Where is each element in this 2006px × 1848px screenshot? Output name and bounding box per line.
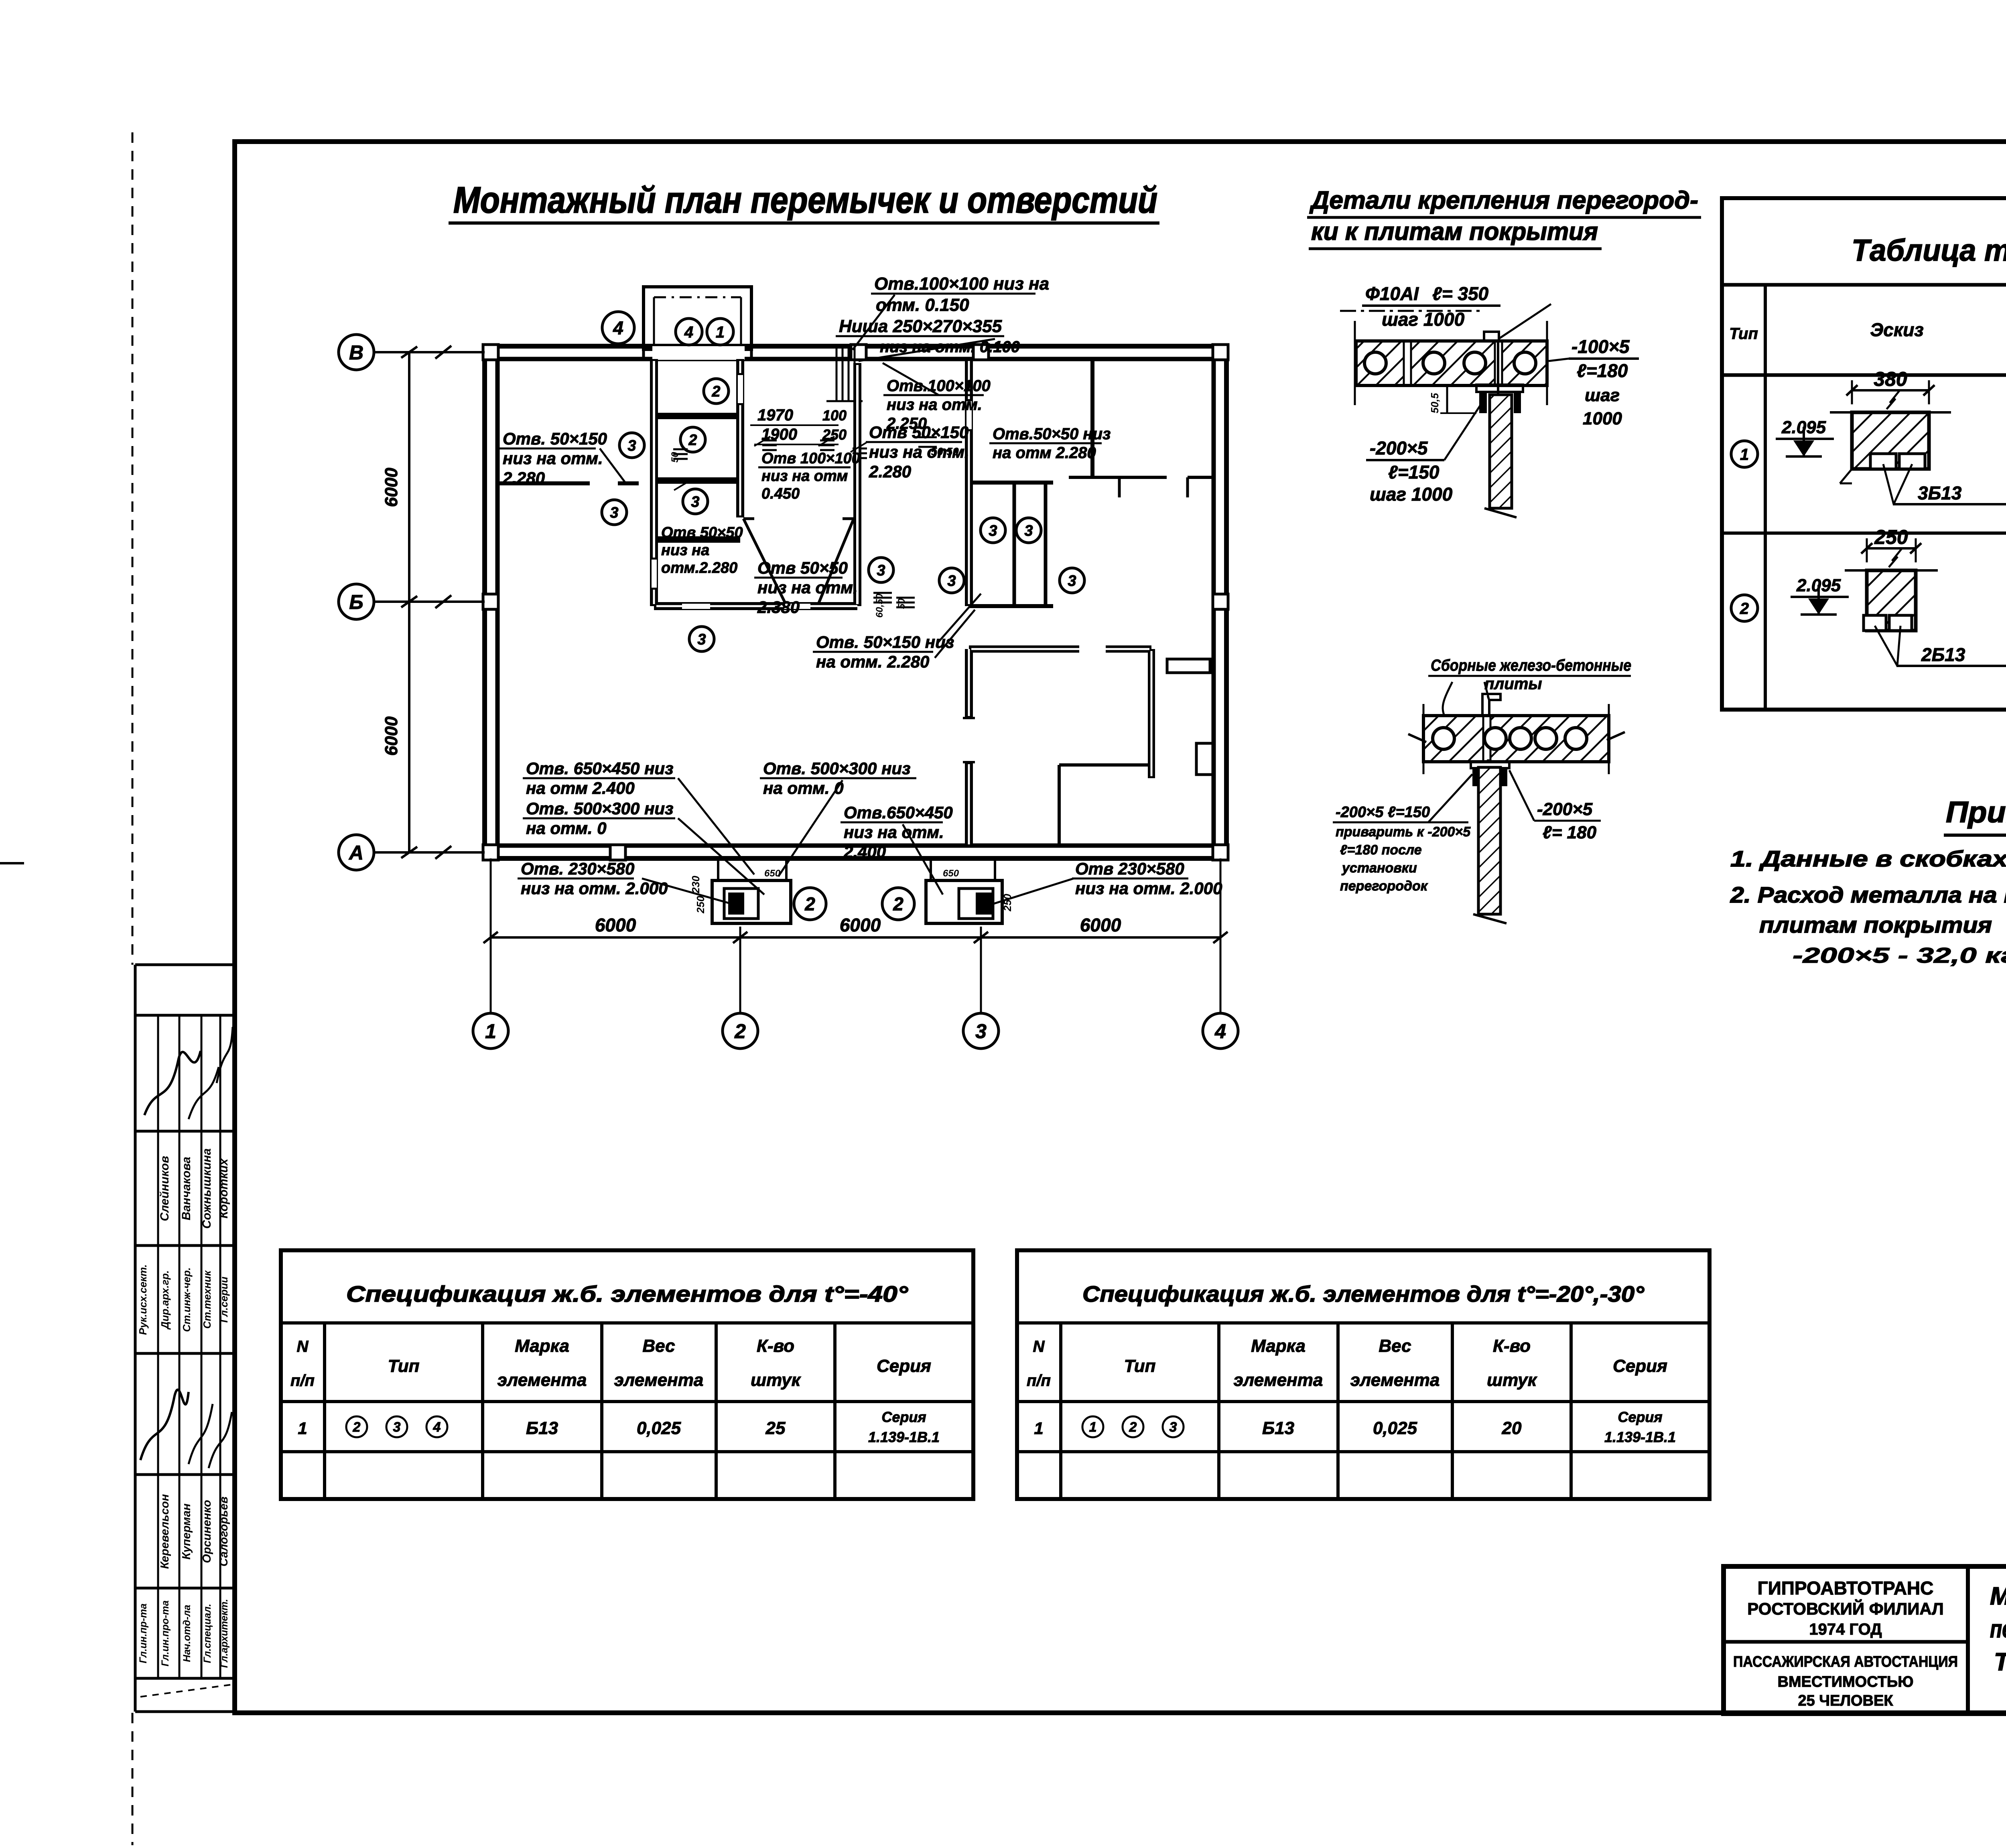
svg-text:Марка: Марка <box>515 1336 569 1356</box>
svg-text:650: 650 <box>943 868 959 879</box>
svg-text:низ на отм.: низ на отм. <box>503 449 603 468</box>
svg-text:-200×5: -200×5 <box>1370 438 1428 458</box>
svg-text:Отв.50×50 низ: Отв.50×50 низ <box>993 425 1111 443</box>
svg-text:6000: 6000 <box>382 468 401 507</box>
svg-text:3: 3 <box>697 631 706 648</box>
svg-text:6000: 6000 <box>1080 915 1121 935</box>
svg-text:Ф10АІ: Ф10АІ <box>1365 283 1419 304</box>
svg-text:п/п: п/п <box>1027 1372 1051 1390</box>
svg-text:3Б13: 3Б13 <box>1918 483 1962 503</box>
svg-text:низ на отм.: низ на отм. <box>844 823 944 842</box>
svg-text:штук: штук <box>751 1370 802 1390</box>
svg-text:1: 1 <box>485 1020 496 1043</box>
svg-text:К-во: К-во <box>1493 1336 1531 1356</box>
svg-text:50,50: 50,50 <box>931 445 959 458</box>
svg-text:2: 2 <box>688 432 697 449</box>
svg-text:Б13: Б13 <box>1262 1418 1294 1438</box>
svg-text:Отв.650×450: Отв.650×450 <box>844 803 953 822</box>
svg-text:Ст.инж-чер.: Ст.инж-чер. <box>181 1268 193 1332</box>
svg-text:Отв. 50×150: Отв. 50×150 <box>503 429 607 448</box>
svg-text:4: 4 <box>613 318 623 339</box>
svg-text:ГИПРОАВТОТРАНС: ГИПРОАВТОТРАНС <box>1758 1578 1934 1598</box>
svg-text:3: 3 <box>975 1020 987 1043</box>
svg-text:Сборные железо-бетонные: Сборные железо-бетонные <box>1431 657 1631 674</box>
svg-text:3: 3 <box>1024 523 1033 540</box>
svg-text:низ на отм. 2.000: низ на отм. 2.000 <box>1075 879 1222 898</box>
svg-text:перегородок: перегородок <box>1340 878 1428 894</box>
svg-text:230: 230 <box>690 876 702 894</box>
svg-text:ПАССАЖИРСКАЯ АВТОСТАНЦИЯ: ПАССАЖИРСКАЯ АВТОСТАНЦИЯ <box>1733 1653 1958 1670</box>
svg-text:25 ЧЕЛОВЕК: 25 ЧЕЛОВЕК <box>1798 1692 1893 1709</box>
svg-text:2: 2 <box>893 894 904 915</box>
svg-text:-200×5 - 32,0 кг: -200×5 - 32,0 кг <box>1793 943 2006 968</box>
svg-text:ℓ=180 после: ℓ=180 после <box>1340 842 1422 858</box>
svg-text:N: N <box>1033 1338 1045 1355</box>
svg-text:Марка: Марка <box>1251 1336 1306 1356</box>
svg-text:2: 2 <box>711 383 720 400</box>
svg-text:отм.2.280: отм.2.280 <box>661 560 737 576</box>
svg-text:В: В <box>349 341 363 364</box>
svg-text:Примечания:: Примечания: <box>1946 795 2006 829</box>
svg-text:-200×5 ℓ=150: -200×5 ℓ=150 <box>1336 804 1430 821</box>
svg-text:ℓ=150: ℓ=150 <box>1388 462 1440 483</box>
svg-text:2: 2 <box>1129 1420 1137 1435</box>
svg-text:50: 50 <box>896 598 907 609</box>
svg-text:20: 20 <box>1502 1418 1522 1438</box>
svg-text:Спецификация ж.б. элементов дл: Спецификация ж.б. элементов для t°=-20°,… <box>1082 1281 1645 1306</box>
svg-text:низ на отм.: низ на отм. <box>887 396 982 414</box>
svg-text:2.400: 2.400 <box>843 842 886 861</box>
svg-text:Рук.исх.сект.: Рук.исх.сект. <box>137 1264 149 1335</box>
svg-text:1: 1 <box>1034 1419 1043 1438</box>
svg-text:2. Расход металла на крепление: 2. Расход металла на крепление перегород… <box>1730 882 2006 907</box>
svg-text:перемычек и отверстий.: перемычек и отверстий. <box>1990 1615 2006 1643</box>
svg-text:1000: 1000 <box>1583 409 1622 428</box>
svg-text:элемента: элемента <box>614 1370 704 1390</box>
svg-text:Дир.арх.гр.: Дир.арх.гр. <box>159 1270 171 1330</box>
svg-text:-200×5: -200×5 <box>1537 799 1593 819</box>
svg-text:ℓ= 350: ℓ= 350 <box>1432 283 1489 304</box>
svg-text:Серия: Серия <box>881 1409 926 1425</box>
svg-text:1: 1 <box>716 323 725 341</box>
svg-text:штук: штук <box>1487 1370 1538 1390</box>
svg-text:Тип: Тип <box>1729 325 1758 343</box>
svg-text:250: 250 <box>1874 526 1908 548</box>
svg-text:250: 250 <box>694 896 707 914</box>
svg-text:шаг 1000: шаг 1000 <box>1382 309 1465 330</box>
svg-text:Таблица типов: Таблица типов <box>1994 1648 2006 1676</box>
svg-text:низ на: низ на <box>661 542 709 559</box>
svg-text:ки к плитам покрытия: ки к плитам покрытия <box>1311 218 1598 245</box>
svg-text:Эскиз: Эскиз <box>1870 319 1924 340</box>
svg-text:380: 380 <box>1874 368 1907 390</box>
svg-text:50: 50 <box>670 452 680 463</box>
svg-text:Ванчакова: Ванчакова <box>180 1157 193 1221</box>
svg-text:элемента: элемента <box>1350 1370 1440 1390</box>
svg-text:Отв 100×100: Отв 100×100 <box>761 450 860 467</box>
svg-text:4: 4 <box>433 1420 441 1435</box>
svg-text:6000: 6000 <box>382 716 401 756</box>
svg-text:низ на отм.: низ на отм. <box>757 578 858 597</box>
svg-text:на отм. 2.280: на отм. 2.280 <box>816 652 929 671</box>
svg-text:на отм 2.400: на отм 2.400 <box>526 779 635 797</box>
svg-text:Салогорьев: Салогорьев <box>217 1497 230 1567</box>
svg-text:1970: 1970 <box>757 406 793 424</box>
svg-text:3: 3 <box>691 494 699 511</box>
svg-text:1900: 1900 <box>761 426 797 443</box>
svg-text:3: 3 <box>627 438 636 454</box>
svg-text:1: 1 <box>298 1419 307 1438</box>
svg-text:0.450: 0.450 <box>761 485 800 502</box>
svg-text:6000: 6000 <box>840 915 881 935</box>
svg-text:2.380: 2.380 <box>757 598 800 617</box>
svg-text:Нач.отд-ла: Нач.отд-ла <box>181 1605 193 1662</box>
svg-text:Вес: Вес <box>642 1336 675 1356</box>
svg-text:Коротких: Коротких <box>217 1158 230 1218</box>
svg-text:0,025: 0,025 <box>1373 1418 1417 1438</box>
svg-text:установки: установки <box>1341 860 1417 876</box>
svg-text:50,5: 50,5 <box>1429 393 1441 413</box>
svg-text:Слейников: Слейников <box>158 1156 171 1221</box>
svg-text:Ниша 250×270×355: Ниша 250×270×355 <box>839 316 1002 336</box>
svg-text:1. Данные в скобках даны для t: 1. Данные в скобках даны для t°=-40° <box>1730 846 2006 871</box>
svg-text:Таблица типов перемычек: Таблица типов перемычек <box>1852 233 2006 268</box>
svg-text:Отв.100×100: Отв.100×100 <box>887 377 991 395</box>
svg-text:3: 3 <box>947 573 956 590</box>
svg-text:Ст.техник: Ст.техник <box>201 1270 213 1329</box>
svg-text:Гл.архитект.: Гл.архитект. <box>219 1599 230 1668</box>
svg-text:1.139-1В.1: 1.139-1В.1 <box>1604 1429 1676 1445</box>
svg-text:А: А <box>348 842 363 864</box>
svg-text:Монтажный план перемычек и отв: Монтажный план перемычек и отверстий <box>453 180 1157 221</box>
svg-text:на отм. 0: на отм. 0 <box>763 779 844 797</box>
svg-text:Отв. 650×450 низ: Отв. 650×450 низ <box>526 759 674 778</box>
svg-text:приварить к -200×5: приварить к -200×5 <box>1336 824 1471 840</box>
svg-text:Орсиненко: Орсиненко <box>201 1500 213 1563</box>
svg-text:ℓ=180: ℓ=180 <box>1577 360 1628 381</box>
svg-text:Гл.ин.про-та: Гл.ин.про-та <box>160 1601 171 1667</box>
svg-text:2.280: 2.280 <box>502 469 545 487</box>
svg-text:3: 3 <box>877 562 885 579</box>
svg-text:Серия: Серия <box>877 1356 931 1376</box>
svg-text:плитам покрытия: плитам покрытия <box>1759 912 1992 937</box>
svg-text:низ на отм: низ на отм <box>761 468 848 485</box>
svg-text:Гл.ин.пр-та: Гл.ин.пр-та <box>138 1603 149 1663</box>
svg-text:650: 650 <box>764 868 781 879</box>
svg-text:Отв 50×50: Отв 50×50 <box>661 524 743 541</box>
svg-text:Отв. 230×580: Отв. 230×580 <box>521 859 634 878</box>
svg-text:элемента: элемента <box>1234 1370 1323 1390</box>
svg-text:N: N <box>297 1338 309 1355</box>
svg-text:250: 250 <box>822 426 847 443</box>
svg-text:3: 3 <box>989 523 997 540</box>
svg-text:Детали крепления перегород-: Детали крепления перегород- <box>1309 187 1698 214</box>
svg-text:25: 25 <box>765 1418 786 1438</box>
svg-text:4: 4 <box>684 323 693 341</box>
svg-text:6000: 6000 <box>595 915 636 935</box>
svg-text:1: 1 <box>1740 446 1749 463</box>
svg-text:шаг: шаг <box>1585 385 1620 405</box>
svg-text:на отм 2.280: на отм 2.280 <box>993 444 1096 462</box>
svg-text:ℓ= 180: ℓ= 180 <box>1543 823 1597 842</box>
svg-text:шаг 1000: шаг 1000 <box>1370 484 1453 505</box>
svg-text:2.280: 2.280 <box>869 462 911 481</box>
svg-text:3: 3 <box>1169 1420 1177 1435</box>
svg-text:Отв. 500×300 низ: Отв. 500×300 низ <box>526 799 674 818</box>
svg-text:Гл.специал.: Гл.специал. <box>202 1604 213 1663</box>
svg-text:Тип: Тип <box>388 1356 420 1376</box>
svg-text:Керевельсон: Керевельсон <box>158 1494 171 1569</box>
svg-text:ВМЕСТИМОСТЬЮ: ВМЕСТИМОСТЬЮ <box>1778 1674 1914 1690</box>
svg-text:1.139-1В.1: 1.139-1В.1 <box>868 1429 940 1445</box>
svg-text:3: 3 <box>393 1420 401 1435</box>
svg-text:1: 1 <box>1089 1420 1097 1435</box>
svg-text:2: 2 <box>734 1020 746 1043</box>
svg-text:Гл.серии: Гл.серии <box>218 1276 230 1323</box>
svg-text:Б: Б <box>349 591 363 613</box>
svg-text:2: 2 <box>353 1420 361 1435</box>
svg-text:К-во: К-во <box>757 1336 794 1356</box>
svg-text:Отв 50×50: Отв 50×50 <box>757 558 848 577</box>
svg-text:2Б13: 2Б13 <box>1921 644 1965 665</box>
svg-text:РОСТОВСКИЙ ФИЛИАЛ: РОСТОВСКИЙ ФИЛИАЛ <box>1747 1599 1943 1618</box>
svg-text:3: 3 <box>610 505 618 521</box>
svg-text:Б13: Б13 <box>526 1418 558 1438</box>
svg-text:Серия: Серия <box>1613 1356 1667 1376</box>
svg-text:Отв. 500×300 низ: Отв. 500×300 низ <box>763 759 911 778</box>
svg-text:низ на отм. 2.000: низ на отм. 2.000 <box>521 879 668 898</box>
svg-text:Отв.100×100 низ на: Отв.100×100 низ на <box>874 274 1049 294</box>
svg-text:60,50: 60,50 <box>874 593 885 618</box>
svg-text:на отм. 0: на отм. 0 <box>526 819 607 838</box>
svg-text:100: 100 <box>822 407 847 424</box>
svg-text:3: 3 <box>1068 573 1076 590</box>
svg-text:1974 ГОД: 1974 ГОД <box>1809 1621 1882 1638</box>
svg-text:Тип: Тип <box>1124 1356 1156 1376</box>
svg-text:Спецификация ж.б. элементов дл: Спецификация ж.б. элементов для t°=-40° <box>346 1281 908 1306</box>
svg-text:отм. 0.150: отм. 0.150 <box>876 295 969 315</box>
svg-text:Вес: Вес <box>1379 1336 1411 1356</box>
svg-text:плиты: плиты <box>1484 675 1542 693</box>
svg-text:Отв. 50×150 низ: Отв. 50×150 низ <box>816 633 954 651</box>
svg-text:-100×5: -100×5 <box>1572 336 1630 357</box>
svg-text:Куперман: Куперман <box>180 1503 193 1560</box>
svg-text:2: 2 <box>1740 600 1749 617</box>
svg-text:Отв 50×150: Отв 50×150 <box>869 423 968 442</box>
svg-text:0,025: 0,025 <box>637 1418 681 1438</box>
svg-text:2: 2 <box>804 894 815 915</box>
svg-text:Монтажный план: Монтажный план <box>1990 1582 2006 1610</box>
svg-text:п/п: п/п <box>290 1372 315 1390</box>
svg-text:Отв 230×580: Отв 230×580 <box>1075 859 1184 878</box>
svg-text:элемента: элемента <box>497 1370 587 1390</box>
svg-text:4: 4 <box>1214 1020 1226 1043</box>
svg-text:Серия: Серия <box>1618 1409 1662 1425</box>
svg-text:250: 250 <box>1001 894 1013 912</box>
svg-text:Сожнышкина: Сожнышкина <box>200 1148 213 1229</box>
